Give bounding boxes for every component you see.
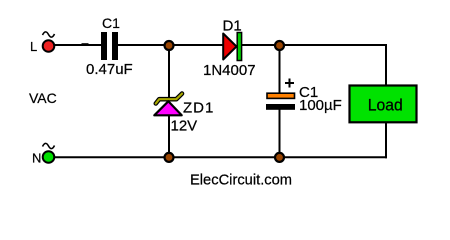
- svg-text:1N4007: 1N4007: [203, 62, 256, 79]
- svg-text:N: N: [32, 151, 41, 166]
- zener diode ZD1 12V: [154, 94, 214, 135]
- svg-text:Load: Load: [368, 95, 403, 114]
- diode D1 1N4007: [203, 18, 256, 80]
- capacitor C1 0.47uF: [86, 15, 133, 78]
- svg-text:D1: D1: [223, 18, 242, 35]
- wire: node A to diode D1 anode: [169, 44, 224, 46]
- svg-text:L: L: [30, 39, 37, 54]
- terminal L (red): [30, 32, 55, 54]
- wire: C1 right plate to node A: [118, 44, 169, 46]
- wire overlap artifact: [82, 43, 89, 45]
- svg-text:VAC: VAC: [29, 90, 57, 106]
- wire: node B to top-right corner then down to Load: [280, 45, 386, 86]
- svg-text:12V: 12V: [171, 118, 198, 135]
- svg-text:C1: C1: [102, 15, 120, 31]
- wire: diode D1 cathode to node B: [242, 44, 280, 46]
- svg-text:ZD1: ZD1: [183, 100, 214, 117]
- svg-text:100µF: 100µF: [299, 97, 342, 114]
- electrolytic capacitor C1 100uF: [266, 79, 342, 115]
- svg-text:0.47uF: 0.47uF: [86, 61, 133, 78]
- node D junction dot (cap to bottom rail): [275, 153, 284, 162]
- terminal N (green): [32, 143, 55, 165]
- node C junction dot (zener to bottom rail): [165, 153, 174, 162]
- svg-text:ElecCircuit.com: ElecCircuit.com: [190, 173, 292, 189]
- wire: bottom rail from N terminal to corner below Load: [54, 156, 387, 158]
- node B junction dot: [275, 41, 284, 50]
- wire: node A down to zener ZD1: [168, 45, 170, 102]
- wire: zener ZD1 anode down to bottom rail: [168, 114, 170, 158]
- wire: electrolytic C1 down to bottom rail: [279, 108, 281, 158]
- load box: [350, 86, 417, 123]
- wire: node B down to electrolytic C1: [279, 45, 281, 93]
- wire: L terminal to C1 left plate: [54, 44, 101, 46]
- node A junction dot: [165, 41, 174, 50]
- wire: Load bottom down to bottom rail: [385, 122, 387, 158]
